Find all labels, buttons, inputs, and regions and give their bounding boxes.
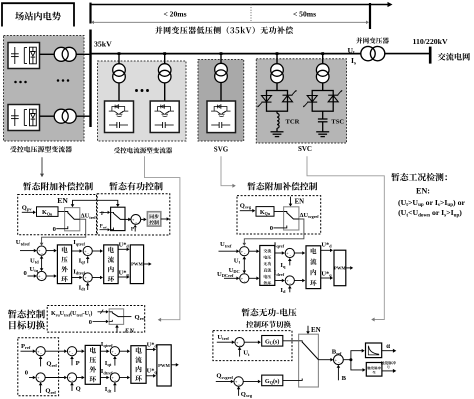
summing junction SVG-I2 [285,276,294,286]
svg-text:B: B [342,375,347,382]
wire B into summing [337,365,341,381]
label Iqref (SVG) [274,241,285,248]
svg-text:EN: EN [124,327,134,334]
label 并网变压器 [356,37,389,43]
label U*q (bottom) [147,368,158,375]
ground TCR [271,132,284,137]
label P feedback (box2) [131,227,135,233]
wire Utdref input [20,249,37,253]
wire SVG V2 to outer [249,277,260,281]
block 电流内环 (bottom) [131,346,146,384]
label Ut feedback (SVG) [234,257,241,264]
svg-text:Ut: Ut [348,46,355,56]
label EN: [416,187,430,196]
wire BL-1 to P summing [45,349,67,353]
svg-text:Iqt: Iqt [79,257,86,264]
switch S4 [109,309,123,325]
dashed box target switching [47,306,145,333]
wire 0 to switch1 [56,228,64,230]
svg-text:Pref: Pref [21,343,31,350]
wire bus to T6 [276,54,278,64]
svg-text:Utdref: Utdref [16,239,30,246]
svg-text:SVG: SVG [214,146,229,154]
svg-text:Iqt: Iqt [105,360,112,367]
label Qpv [22,204,33,211]
svg-text:EN:: EN: [416,187,430,196]
label Bref [332,349,342,356]
wire bus to T4 [164,54,166,64]
label 0 (bottom loop) [25,369,29,376]
wire Utref input SVG [219,249,240,253]
label P input (box2) [101,212,104,217]
svg-text:Iqref: Iqref [274,241,285,248]
svg-text:Idt: Idt [105,386,112,393]
wire switch2 to summing [125,218,131,222]
wire BL-6 to current inner [120,376,131,380]
dots ellipsis CSC [135,89,149,92]
summing junction BL-2 [36,373,45,383]
wire EN into switch5 [306,326,310,334]
wire Pref input [21,349,36,353]
label 0 (box1) [53,226,57,233]
label KruUtref(Utref-Ut) [51,310,92,317]
block 电流内环 (SVG) [306,246,321,289]
wire to SVG summing I1 [275,251,285,255]
gain block K-Qu (box1) [37,207,59,217]
converter VSC2 [8,105,40,131]
wire transformer to grid bus [385,53,429,55]
title 暂态控制目标切换 [8,310,45,330]
transformer T3 [113,64,126,83]
wire 0 input bottom [29,376,36,380]
svg-text:(Ut>Uup or Is>Iup) or: (Ut>Uup or Is>Iup) or [398,198,465,208]
svg-text:Is: Is [351,56,356,66]
condition line 1 [398,198,465,208]
35kV bus bar [89,30,91,128]
transformer T4 [158,64,171,83]
wire GQ to switch5 [283,379,299,381]
wire Iqt into BL-5 [113,356,117,366]
svg-text:EN: EN [57,196,68,205]
label Ut [348,46,355,56]
gain block K-Qu (box3) [256,207,274,217]
wire Pref to switch2 [100,228,111,231]
label UDC feedback [229,267,240,274]
35kV bus wire [91,53,362,55]
svg-text:U*q: U*q [147,368,158,375]
svg-text:GQ(s): GQ(s) [265,378,280,385]
svg-text:Utd: Utd [30,257,39,264]
wire Idt feedback [86,283,90,291]
svg-text:PWM: PWM [131,261,143,266]
output wire PWM VSC [144,262,152,266]
svg-text:PWM: PWM [158,363,170,368]
wire to PWM d SVG [321,276,333,280]
block 同步控制 [147,212,160,226]
wire ΔUtref to voltage loop [40,219,86,246]
inductor L-TCR [277,113,279,128]
wire Ut/UDC feedback [243,256,247,273]
label ΔUtref [81,213,97,220]
svg-text:Idref: Idref [274,270,285,277]
pointer line SVC to control [307,156,384,321]
wire T7 to TSC valves [322,83,324,91]
converter SVG unit [207,101,236,133]
summing junction VSC-I1 [83,246,92,256]
block 电压外环 (VSC) [57,245,71,284]
wire I1 to current inner [92,249,103,253]
block 电流内环 (VSC) [104,245,118,284]
svg-text:(Ut<Udown or Is>Iup): (Ut<Udown or Is>Iup) [398,208,462,218]
wire SVG I2 to inner [294,279,305,283]
label 触发脉冲 output [381,361,396,369]
label UDCref [217,271,234,278]
svg-text:Qref: Qref [45,388,56,395]
svg-text:35kV: 35kV [94,40,112,49]
wire UDCref input [224,277,239,281]
group box 受控电压源型变流器 [4,36,85,142]
svg-text:Ut: Ut [243,350,250,357]
svg-text:U*q: U*q [119,270,130,277]
transformer T1 [54,47,76,61]
label Utd [30,257,39,264]
svg-text:0: 0 [25,369,29,376]
label ΔUsvgref [300,212,320,219]
group box SVC [256,59,346,143]
wire KQu2 to switch3 [274,211,284,213]
junction VSC branch 2 [163,52,166,55]
wire B summing split [343,349,365,372]
svg-text:P: P [131,227,135,233]
svg-text:Q: Q [76,385,81,392]
svg-text:PWM: PWM [334,266,346,271]
wire to PWM q [118,248,130,252]
svg-text:Pref: Pref [100,225,108,230]
title 暂态附加补偿控制 (VSC) [23,182,93,190]
wire V2 to voltage outer [46,274,57,278]
timeline middle tick [369,3,371,29]
wire to PWM q bottom [146,348,156,352]
label U*d (VSC) [119,241,130,248]
svg-text:P: P [101,212,104,217]
wire KQu to switch1 [58,211,65,213]
wire bus to T3 [118,54,120,64]
dashed box transient compensation SVG [237,196,321,234]
svg-text:0: 0 [89,319,92,326]
label U*d (bottom) [147,341,158,348]
label Iqt feedback [79,257,86,264]
svg-text:Iqtref: Iqtref [73,239,85,246]
svg-text:GU(s): GU(s) [265,338,279,345]
label Utref (SVG loop) [220,241,232,248]
output wire PWM bottom [171,363,179,367]
wire T4 to CSC2 [164,83,166,101]
label B feedback [342,375,347,382]
wire QV-1 to GU [244,340,261,344]
dimension line 35kV compensation span [91,21,369,25]
switch S2 [111,207,125,230]
label Pref (box2) [100,225,108,230]
station EMF box 场站内电势 [2,3,74,26]
label P feedback (bottom) [76,360,80,367]
wire T2 to bus [76,115,89,117]
wire Qref into BL-2 [39,382,43,393]
wire T6 to TCR valves [276,83,278,91]
label Qsvg feedback [241,391,253,398]
label U*q (SVG) [321,270,332,277]
svg-text:P: P [76,360,80,367]
svg-text:0: 0 [53,226,57,233]
svg-text:SVC: SVC [298,145,312,153]
wire T1 to bus [76,53,89,55]
wire SVG V1 to outer [249,249,260,253]
output wire sync control [161,217,170,221]
transformer T2 [54,109,76,123]
block GQ(s) [262,375,283,386]
dashed box transient compensation VSC [18,195,97,235]
wire bus to T7 [322,54,324,64]
wire V1 to voltage outer [46,249,57,253]
block GU(s) [262,336,283,347]
junction TCR branch [276,52,279,55]
wire 0 to switch4 [93,320,109,323]
svg-text:< 50ms: < 50ms [293,9,316,18]
transformer T-grid 并网变压器 [361,46,385,60]
wire to PWM d bottom [146,374,156,378]
summing junction QV-1 [235,338,244,348]
wire SVG I1 to inner [294,251,305,255]
wire VSC2 to T2 [40,115,55,117]
label Qref feedback 2 [45,388,56,395]
pointer line SVG to control [221,156,236,188]
label alpha [386,343,390,350]
converter CSC1 [105,101,134,133]
svg-text:Qsvgref: Qsvgref [216,373,233,380]
svg-text:U*d: U*d [321,242,332,249]
wire Kru to switch4 [98,310,109,314]
wire Idt into BL-6 [113,382,117,392]
svg-text:< 20ms: < 20ms [163,9,186,18]
svg-text:Utref: Utref [220,241,232,248]
junction TSC branch [321,52,324,55]
svg-text:ΔUtref: ΔUtref [81,213,97,220]
label Ut feedback (QV) [243,350,250,357]
wire Qsvgref to summing [216,380,234,384]
label 110/220kV [413,37,448,46]
output wire alpha [382,349,397,353]
summing junction B [334,355,344,365]
label Idtref (bottom) [101,368,113,375]
label Id feedback (SVG) [280,287,286,294]
wire Q into BL-4 [70,382,74,391]
block PWM (VSC) [130,245,143,284]
label Idref (SVG) [274,270,285,277]
dashed box transient active power [97,194,170,235]
wire Qsvg into QV-2 [237,386,241,396]
wire switch5 to B summing [318,358,333,362]
label 0 (box3) [270,225,274,232]
wire I2 to current inner [92,276,103,280]
title 暂态附加补偿控制 (SVG) [247,182,317,190]
svg-text:TSC: TSC [331,118,344,125]
ground TSC [316,132,329,137]
capacitor C-TSC [318,119,328,122]
wire Qpv to KQu [22,211,36,215]
thyristor valve pair TSC [303,91,342,112]
svg-text:EN: EN [295,198,305,205]
wire capacitor to ground [322,122,324,132]
wire Utd/Utq feedback [40,256,44,272]
timeline dotted divider [250,5,252,22]
label TCR [286,118,300,125]
svg-text:Id: Id [280,287,286,294]
wire bus to T5 [220,54,222,64]
label <50ms [293,9,316,18]
wire VSC1 to T1 [40,53,55,55]
svg-text:Utq: Utq [30,266,39,273]
label Qsvg [240,202,252,209]
summing junction SVG-V2 [240,274,249,284]
label Idtref (VSC) [73,268,85,275]
timeline left tick [89,3,91,24]
label EN (box1) [57,196,68,205]
label Qref output [135,314,146,321]
wire BL-3 to voltage outer [77,349,85,353]
block PWM (SVG) [334,250,346,286]
summing junction BL-5 [110,347,119,357]
label 35kV [94,40,112,49]
summing junction box2 [131,215,141,225]
thyristor valve pair TCR [258,91,297,112]
svg-text:110/220kV: 110/220kV [413,37,448,46]
title 暂态工况检测 [391,173,447,181]
converter CSC2 [150,101,179,133]
label Qsvgref (QV switch) [216,373,233,380]
block alpha characteristic curve [366,343,382,358]
summing junction VSC-I2 [83,273,92,283]
wire Qref into BL-1 [39,356,43,366]
label Iq feedback (SVG) [280,262,286,269]
wire Qsvg to KQu2 [240,209,256,213]
label Qref feedback 1 [46,361,57,368]
switch S1 [65,208,80,231]
wire switch4 output Qref [124,316,132,318]
label Utref (QV switch) [217,334,229,341]
label 0 (VSC loop) [24,270,28,277]
dashed box voltage branch [213,331,292,361]
label U*d (SVG) [321,242,332,249]
timeline axis [91,2,393,7]
label Idt feedback [79,284,86,291]
group box SVG [198,60,244,142]
summing junction SVG-V1 [240,247,249,257]
svg-text:TCR: TCR [286,118,300,125]
summing junction BL-1 [36,347,45,357]
wire ΔUsvgref to SVG voltage loop [243,219,304,246]
wire TCR valves to inductor [276,111,278,113]
block PWM (bottom) [157,345,171,386]
label Pref (bottom) [21,343,31,350]
svg-text:Ut: Ut [234,257,241,264]
summing junction BL-6 [110,373,119,383]
block 触发脉冲生成 [366,363,382,377]
svg-text:U*d: U*d [147,341,158,348]
wire to PWM q SVG [321,249,333,253]
wire BL-2 to Q summing [45,376,67,380]
pointer arrow VSC to control [40,157,44,177]
svg-text:0: 0 [24,270,28,277]
transformer T6 TCR [271,64,284,83]
summing junction SVG-I1 [285,248,294,258]
wire 0 to switch3 [274,227,284,229]
label Is [351,56,356,66]
wire Utref to summing [217,340,235,344]
dashed box P/Q reference [18,338,59,396]
label Iqt feedback (bottom) [105,360,112,367]
wire T5 to SVG converter [220,83,222,102]
label 交流电网 [438,53,470,61]
label SVG [214,146,229,154]
block 交流电压无功直流电压外环 [260,246,275,286]
wire Id feedback SVG [288,286,292,293]
wire to SVG summing I2 [275,279,285,283]
wire inductor to ground [276,128,278,132]
label Iqtref (bottom) [101,341,113,348]
wire to BL-5 [100,349,109,353]
label EN (bottom right) [311,326,321,334]
wire Iqt feedback [86,256,90,263]
condition line 2 [398,208,462,218]
summing junction VSC-V1 [37,246,46,256]
transformer T5 [215,63,228,82]
pointer line CSC to control [145,156,180,322]
title 暂态无功-电压控制环节切换 [242,308,297,328]
wire to summing I2 [72,276,83,280]
svg-text:Qpv: Qpv [22,204,33,211]
wire GU to switch5 [283,340,299,342]
wire P into BL-3 [70,356,74,365]
svg-text:Utref: Utref [217,334,229,341]
svg-text:U*q: U*q [321,270,332,277]
wire to BL-6 [100,376,109,380]
grid bus bar 110/220kV [429,47,432,64]
svg-text:Qsvg: Qsvg [241,391,253,398]
switch S5 [299,334,319,387]
wire EN into switch4 [115,325,119,333]
EN wire box3 [289,197,293,207]
label TSC [331,118,344,125]
dots ellipsis left col [14,81,27,84]
title 暂态有功控制 [109,182,162,191]
block 电压外环 (bottom) [85,345,100,384]
summing junction BL-4 [67,373,76,383]
EN wire box1 [71,200,120,207]
svg-text:Idt: Idt [79,284,86,291]
svg-text:ΔUsvgref: ΔUsvgref [300,212,320,219]
wire BL-4 to voltage outer [77,376,85,380]
wire T3 to CSC1 [118,83,120,101]
wire Ut into QV-1 [238,347,242,357]
svg-text:Qref: Qref [135,314,146,321]
label Q feedback (bottom) [76,385,81,392]
svg-text:U*d: U*d [119,241,130,248]
switch S3 [284,207,299,230]
svg-text:KruUtref(Utref-Ut): KruUtref(Utref-Ut) [51,310,92,317]
svg-text:Qref: Qref [46,361,57,368]
svg-text:0: 0 [270,225,274,232]
wire Iq feedback SVG [288,258,292,265]
output wire trigger pulses [382,369,396,373]
